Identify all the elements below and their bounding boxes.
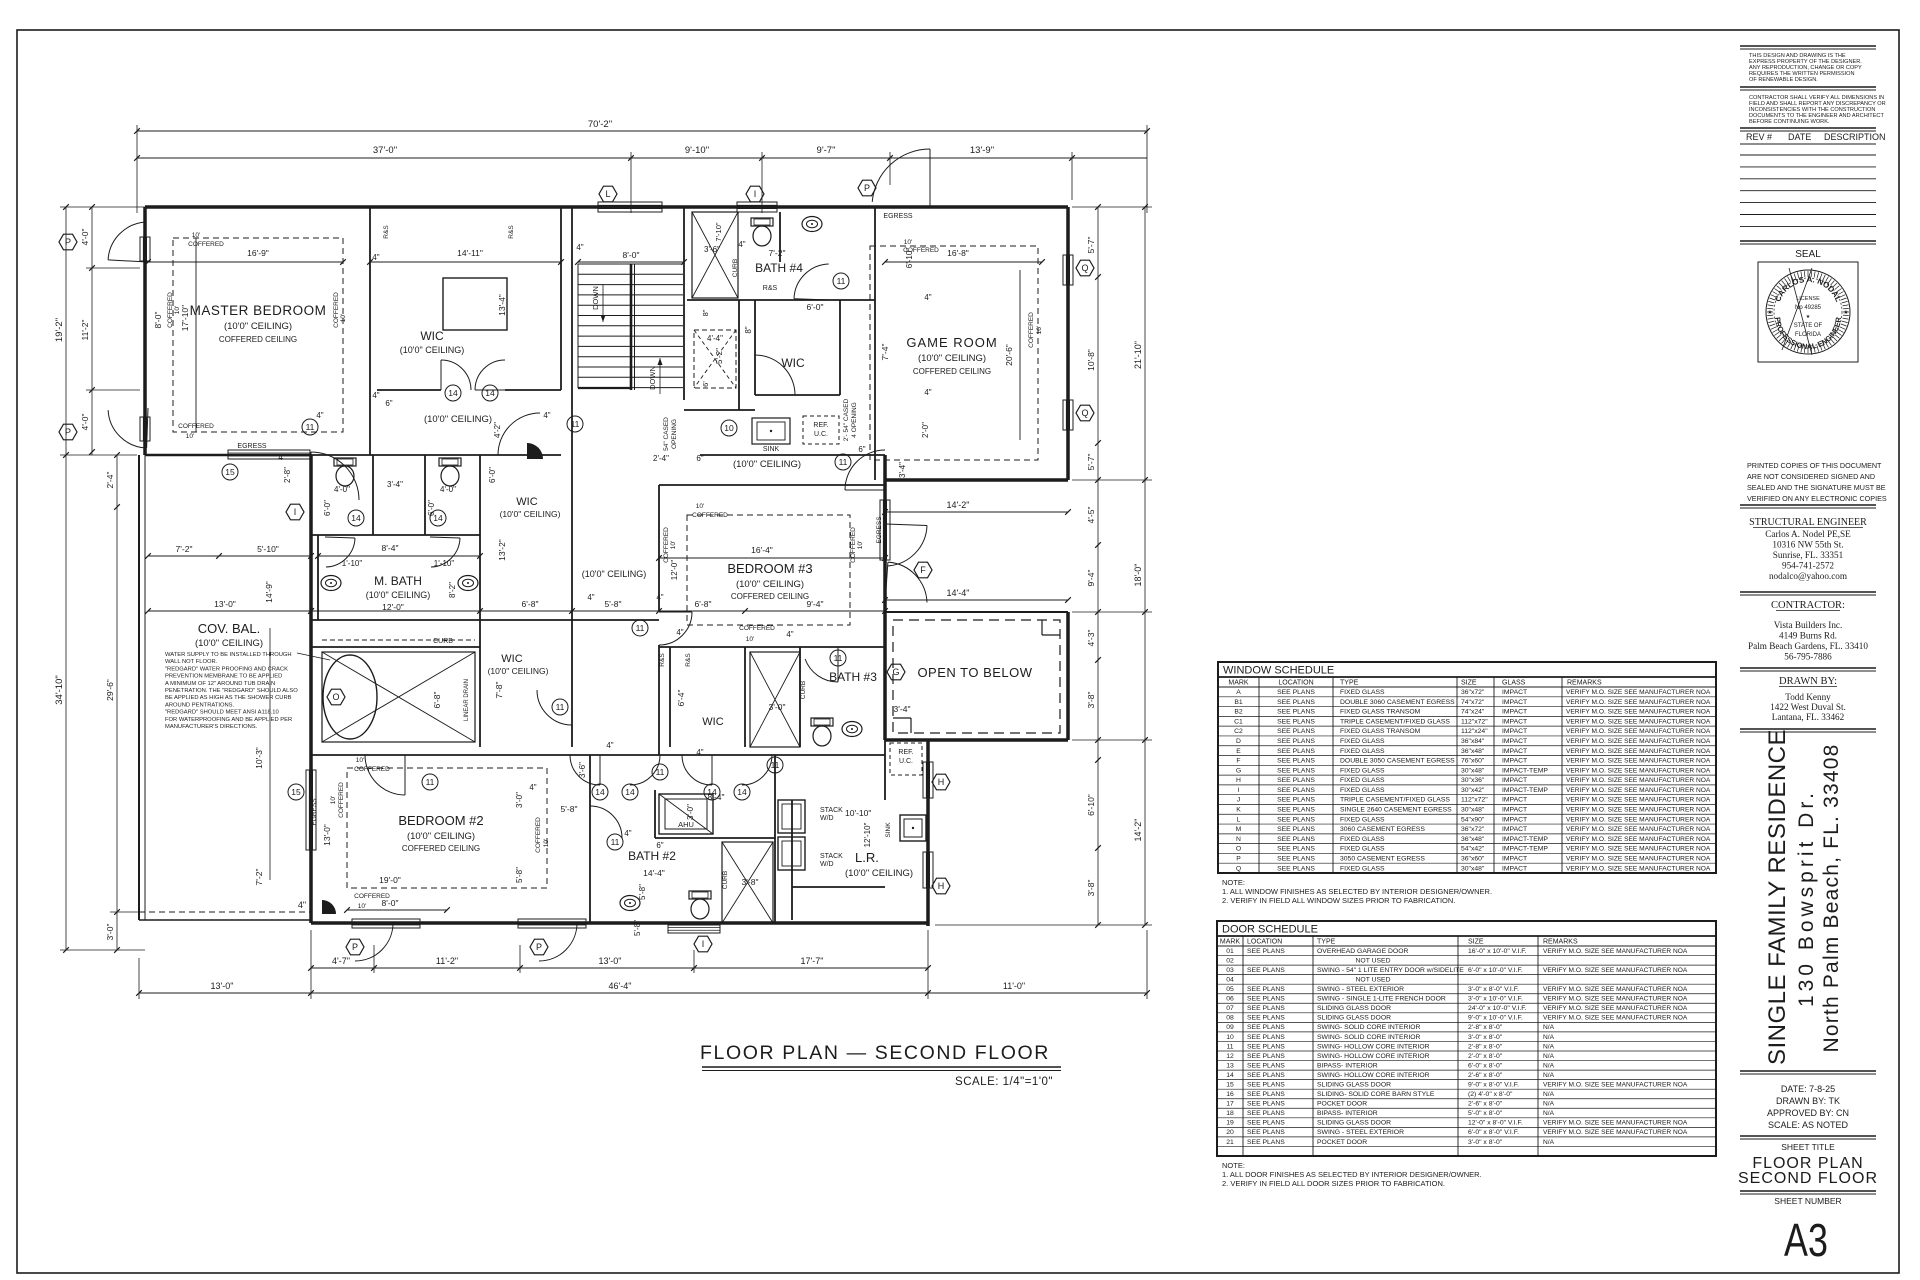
svg-text:76"x60": 76"x60" — [1461, 758, 1485, 765]
svg-text:8'-4": 8'-4" — [708, 792, 725, 802]
svg-text:30"x42": 30"x42" — [1461, 787, 1485, 794]
svg-text:130 Bowsprit Dr.: 130 Bowsprit Dr. — [1795, 789, 1818, 1007]
svg-text:M. BATH: M. BATH — [374, 574, 422, 588]
svg-text:O: O — [332, 692, 339, 702]
svg-text:3'-0": 3'-0" — [769, 702, 786, 712]
svg-text:11'-0": 11'-0" — [1003, 981, 1025, 991]
svg-text:SEE PLANS: SEE PLANS — [1247, 1129, 1285, 1136]
svg-text:FIXED GLASS: FIXED GLASS — [1340, 777, 1385, 784]
svg-text:FIXED GLASS: FIXED GLASS — [1340, 748, 1385, 755]
svg-text:6'-0": 6'-0" — [323, 500, 332, 516]
svg-text:10': 10' — [543, 839, 550, 847]
svg-text:3'-4": 3'-4" — [387, 480, 403, 489]
svg-text:6'-0" x 10'-0" V.I.F.: 6'-0" x 10'-0" V.I.F. — [1468, 967, 1523, 974]
svg-text:30"x36": 30"x36" — [1461, 777, 1485, 784]
svg-text:21: 21 — [1226, 1139, 1234, 1146]
svg-text:112"x72": 112"x72" — [1461, 797, 1488, 804]
svg-text:11: 11 — [636, 623, 645, 633]
svg-text:5'-8": 5'-8" — [515, 867, 524, 883]
svg-text:10': 10' — [192, 232, 200, 239]
svg-text:19: 19 — [1226, 1120, 1234, 1127]
svg-text:GAME ROOM: GAME ROOM — [906, 335, 997, 350]
svg-text:IMPACT-TEMP: IMPACT-TEMP — [1502, 836, 1548, 843]
elevator shaft — [694, 330, 736, 388]
svg-text:FIXED GLASS: FIXED GLASS — [1340, 738, 1385, 745]
svg-text:11: 11 — [1226, 1043, 1233, 1050]
svg-text:SEE PLANS: SEE PLANS — [1247, 1015, 1285, 1022]
svg-text:COFFERED CEILING: COFFERED CEILING — [913, 367, 991, 376]
svg-text:03: 03 — [1226, 967, 1234, 974]
svg-text:13'-0": 13'-0" — [214, 599, 236, 609]
svg-text:DRAWN BY: TK: DRAWN BY: TK — [1776, 1096, 1840, 1106]
svg-text:IMPACT: IMPACT — [1502, 758, 1527, 765]
svg-text:36"x72": 36"x72" — [1461, 689, 1485, 696]
svg-text:74"x24": 74"x24" — [1461, 709, 1485, 716]
svg-text:Lantana, FL. 33462: Lantana, FL. 33462 — [1772, 712, 1845, 722]
svg-text:20: 20 — [1226, 1129, 1234, 1136]
svg-text:4'-3": 4'-3" — [1086, 630, 1096, 647]
svg-text:SEE PLANS: SEE PLANS — [1277, 758, 1315, 765]
svg-text:SHEET NUMBER: SHEET NUMBER — [1774, 1196, 1841, 1206]
svg-text:10': 10' — [356, 757, 364, 764]
svg-text:2'- 54" CASED: 2'- 54" CASED — [843, 398, 850, 441]
svg-text:STACK: STACK — [820, 853, 843, 860]
svg-text:MARK: MARK — [1220, 939, 1241, 946]
svg-text:54"x42": 54"x42" — [1461, 846, 1485, 853]
svg-text:21'-10": 21'-10" — [1133, 341, 1143, 369]
svg-text:BIPASS- INTERIOR: BIPASS- INTERIOR — [1317, 1062, 1378, 1069]
svg-text:SIZE: SIZE — [1468, 939, 1484, 946]
svg-text:N/A: N/A — [1543, 1091, 1555, 1098]
svg-text:FIXED GLASS: FIXED GLASS — [1340, 846, 1385, 853]
svg-text:CURB: CURB — [732, 259, 739, 277]
svg-text:OPEN TO BELOW: OPEN TO BELOW — [917, 665, 1032, 680]
svg-text:COFFERED: COFFERED — [338, 782, 345, 818]
svg-text:SWING- HOLLOW CORE INTERIOR: SWING- HOLLOW CORE INTERIOR — [1317, 1043, 1430, 1050]
svg-text:34'-10": 34'-10" — [54, 675, 65, 704]
svg-text:4": 4" — [656, 593, 663, 602]
svg-text:VERIFY M.O. SIZE SEE MANUFACTU: VERIFY M.O. SIZE SEE MANUFACTURER NOA — [1566, 807, 1711, 814]
svg-text:8": 8" — [744, 326, 753, 333]
bedroom 2 — [347, 768, 547, 888]
svg-text:SWING - STEEL EXTERIOR: SWING - STEEL EXTERIOR — [1317, 986, 1404, 993]
svg-text:SEE PLANS: SEE PLANS — [1277, 807, 1315, 814]
svg-text:SEE PLANS: SEE PLANS — [1277, 787, 1315, 794]
svg-text:11: 11 — [571, 419, 580, 429]
svg-text:4": 4" — [738, 240, 745, 249]
svg-text:NOT USED: NOT USED — [1356, 977, 1391, 984]
svg-text:VERIFY M.O. SIZE SEE MANUFACTU: VERIFY M.O. SIZE SEE MANUFACTURER NOA — [1543, 986, 1688, 993]
svg-text:VERIFY M.O. SIZE SEE MANUFACTU: VERIFY M.O. SIZE SEE MANUFACTURER NOA — [1543, 1129, 1688, 1136]
svg-text:SECOND FLOOR: SECOND FLOOR — [1738, 1170, 1878, 1187]
svg-text:4": 4" — [786, 630, 793, 639]
svg-text:TRIPLE CASEMENT/FIXED GLASS: TRIPLE CASEMENT/FIXED GLASS — [1340, 718, 1450, 725]
svg-text:1'-10": 1'-10" — [434, 559, 455, 568]
svg-text:COFFERED: COFFERED — [333, 292, 340, 328]
svg-text:CURB: CURB — [433, 638, 453, 645]
svg-text:VERIFY M.O. SIZE SEE MANUFACTU: VERIFY M.O. SIZE SEE MANUFACTURER NOA — [1566, 718, 1711, 725]
svg-text:4 OPENING: 4 OPENING — [851, 402, 858, 437]
svg-text:SCALE: 1/4"=1'0": SCALE: 1/4"=1'0" — [955, 1076, 1053, 1088]
svg-text:74"x72": 74"x72" — [1461, 699, 1485, 706]
svg-text:7'-8": 7'-8" — [494, 682, 504, 699]
svg-text:SEE PLANS: SEE PLANS — [1247, 1110, 1285, 1117]
svg-text:9'-10": 9'-10" — [685, 145, 709, 156]
svg-text:15: 15 — [225, 467, 235, 477]
svg-text:R&S: R&S — [508, 225, 515, 239]
svg-text:13'-0": 13'-0" — [211, 981, 234, 991]
svg-text:(10'0" CEILING): (10'0" CEILING) — [733, 459, 801, 470]
svg-text:VERIFY M.O. SIZE SEE MANUFACTU: VERIFY M.O. SIZE SEE MANUFACTURER NOA — [1566, 728, 1711, 735]
svg-text:10': 10' — [340, 314, 347, 322]
svg-text:56-795-7886: 56-795-7886 — [1784, 652, 1832, 662]
svg-text:IMPACT: IMPACT — [1502, 728, 1527, 735]
svg-text:10'-8": 10'-8" — [1086, 349, 1096, 371]
top dimension lines — [137, 130, 1147, 132]
svg-text:4": 4" — [298, 900, 306, 910]
svg-text:CURB: CURB — [800, 681, 807, 699]
svg-text:5'-8": 5'-8" — [561, 804, 578, 814]
svg-text:WIC: WIC — [420, 329, 444, 343]
svg-text:3'-0" x 8'-0" V.I.F.: 3'-0" x 8'-0" V.I.F. — [1468, 986, 1519, 993]
svg-text:3'-6": 3'-6" — [578, 762, 587, 778]
svg-text:SEE PLANS: SEE PLANS — [1277, 718, 1315, 725]
svg-text:17'-10": 17'-10" — [180, 305, 190, 331]
svg-text:12: 12 — [1226, 1053, 1234, 1060]
svg-text:2'-8" x 8'-0": 2'-8" x 8'-0" — [1468, 1043, 1503, 1050]
svg-text:SEE PLANS: SEE PLANS — [1247, 1082, 1285, 1089]
svg-text:5'-8": 5'-8" — [605, 599, 622, 609]
svg-text:10': 10' — [186, 433, 194, 440]
svg-text:D: D — [1236, 738, 1241, 745]
svg-text:PENETRATION. THE "REDGARD": PENETRATION. THE "REDGARD" SHOULD ALSO — [165, 688, 298, 694]
svg-text:10'-10": 10'-10" — [845, 808, 871, 818]
svg-text:8'-4": 8'-4" — [382, 543, 399, 553]
svg-text:4'-0": 4'-0" — [80, 414, 90, 431]
svg-text:2. VERIFY IN FIELD ALL WINDOW: 2. VERIFY IN FIELD ALL WINDOW SIZES PRIO… — [1222, 896, 1455, 905]
svg-text:10'-3": 10'-3" — [254, 747, 264, 769]
svg-text:02: 02 — [1226, 957, 1234, 964]
svg-text:14: 14 — [1226, 1072, 1234, 1079]
svg-text:VERIFY M.O. SIZE SEE MANUFACTU: VERIFY M.O. SIZE SEE MANUFACTURER NOA — [1566, 709, 1711, 716]
svg-text:14: 14 — [485, 388, 495, 398]
svg-text:SWING- SOLID CORE INTERIOR: SWING- SOLID CORE INTERIOR — [1317, 1024, 1421, 1031]
svg-text:36"x48": 36"x48" — [1461, 836, 1485, 843]
svg-text:10': 10' — [174, 306, 181, 314]
svg-text:3'-4": 3'-4" — [898, 462, 907, 478]
svg-text:SINK: SINK — [885, 822, 892, 838]
svg-text:11: 11 — [426, 777, 435, 787]
svg-text:SEE PLANS: SEE PLANS — [1247, 1034, 1285, 1041]
window mark symbols — [599, 186, 617, 202]
svg-text:A MINIMUM OF 12" AROUND T: A MINIMUM OF 12" AROUND TUB DRAIN — [165, 681, 275, 687]
svg-text:16: 16 — [1226, 1091, 1234, 1098]
svg-text:19'-0": 19'-0" — [379, 875, 401, 885]
svg-text:2. VERIFY IN FIELD ALL DOOR SI: 2. VERIFY IN FIELD ALL DOOR SIZES PRIOR … — [1222, 1179, 1445, 1188]
svg-text:6'-0" x 8'-0": 6'-0" x 8'-0" — [1468, 1062, 1503, 1069]
svg-text:G: G — [1236, 767, 1241, 774]
svg-text:13'-0": 13'-0" — [322, 824, 332, 846]
svg-text:6'-0": 6'-0" — [488, 467, 497, 483]
svg-text:1. ALL DOOR FINISHES AS SELECT: 1. ALL DOOR FINISHES AS SELECTED BY INTE… — [1222, 1170, 1482, 1179]
svg-text:6'-0" x 8'-0" V.I.F.: 6'-0" x 8'-0" V.I.F. — [1468, 1129, 1519, 1136]
svg-text:IMPACT: IMPACT — [1502, 709, 1527, 716]
svg-text:15: 15 — [1226, 1082, 1234, 1089]
svg-text:N/A: N/A — [1543, 1139, 1555, 1146]
master shower — [322, 652, 475, 742]
svg-text:11'-2": 11'-2" — [436, 956, 458, 966]
svg-text:COFFERED: COFFERED — [663, 527, 670, 563]
svg-text:2'-6" x 8'-0": 2'-6" x 8'-0" — [1468, 1072, 1503, 1079]
svg-text:3'-6": 3'-6" — [704, 245, 720, 254]
svg-text:3'-8": 3'-8" — [742, 877, 759, 887]
svg-text:4": 4" — [676, 628, 683, 637]
svg-text:SWING - STEEL EXTERIOR: SWING - STEEL EXTERIOR — [1317, 1129, 1404, 1136]
svg-text:10316 NW 55th St.: 10316 NW 55th St. — [1772, 540, 1843, 550]
svg-text:Vista Builders Inc.: Vista Builders Inc. — [1774, 620, 1843, 630]
svg-text:4'-5": 4'-5" — [1086, 507, 1096, 524]
svg-text:FOR WATERPROOFING AND BE A: FOR WATERPROOFING AND BE APPLIED PER — [165, 717, 292, 723]
svg-text:IMPACT: IMPACT — [1502, 718, 1527, 725]
svg-text:G: G — [892, 667, 899, 677]
svg-text:FLOOR PLAN — SECOND FLOOR: FLOOR PLAN — SECOND FLOOR — [700, 1042, 1050, 1064]
svg-text:VERIFY M.O. SIZE SEE MANUFACTU: VERIFY M.O. SIZE SEE MANUFACTURER NOA — [1566, 738, 1711, 745]
svg-text:SLIDING GLASS DOOR: SLIDING GLASS DOOR — [1317, 1082, 1391, 1089]
svg-text:SLIDING- SOLID CORE BARN STYLE: SLIDING- SOLID CORE BARN STYLE — [1317, 1091, 1435, 1098]
svg-text:N/A: N/A — [1543, 1053, 1555, 1060]
svg-text:SEE PLANS: SEE PLANS — [1247, 996, 1285, 1003]
svg-text:FIXED GLASS: FIXED GLASS — [1340, 767, 1385, 774]
svg-text:nodalco@yahoo.com: nodalco@yahoo.com — [1769, 571, 1847, 581]
svg-text:COFFERED CEILING: COFFERED CEILING — [219, 335, 297, 344]
contractor verify note — [1740, 86, 1876, 88]
svg-text:5'-7": 5'-7" — [1086, 237, 1096, 254]
svg-text:VERIFY M.O. SIZE SEE MANUFACTU: VERIFY M.O. SIZE SEE MANUFACTURER NOA — [1566, 767, 1711, 774]
bath 2 + ahu — [659, 794, 713, 834]
door schedule — [1217, 921, 1716, 1156]
svg-text:10': 10' — [1036, 326, 1043, 334]
svg-text:WIC: WIC — [501, 653, 522, 665]
svg-text:SEE PLANS: SEE PLANS — [1277, 826, 1315, 833]
svg-text:11: 11 — [656, 767, 665, 777]
svg-text:3'-0": 3'-0" — [686, 804, 695, 820]
svg-text:I: I — [294, 507, 297, 517]
svg-text:COFFERED: COFFERED — [535, 817, 542, 853]
svg-text:SEE PLANS: SEE PLANS — [1247, 948, 1285, 955]
svg-text:I: I — [1238, 787, 1240, 794]
svg-text:AHU: AHU — [678, 820, 694, 829]
svg-text:(10'0" CEILING): (10'0" CEILING) — [407, 831, 475, 842]
svg-text:DATE: 7-8-25: DATE: 7-8-25 — [1781, 1084, 1835, 1094]
svg-text:14: 14 — [351, 513, 361, 523]
svg-text:13: 13 — [1226, 1062, 1234, 1069]
svg-text:5'-7": 5'-7" — [1086, 454, 1096, 471]
svg-text:FIXED GLASS: FIXED GLASS — [1340, 689, 1385, 696]
svg-text:NOTE:: NOTE: — [1222, 878, 1245, 887]
svg-text:12'-10": 12'-10" — [863, 822, 872, 847]
svg-text:★: ★ — [1767, 309, 1772, 316]
powder rooms — [334, 458, 356, 486]
svg-text:FIXED GLASS: FIXED GLASS — [1340, 816, 1385, 823]
svg-text:BIPASS- INTERIOR: BIPASS- INTERIOR — [1317, 1110, 1378, 1117]
svg-text:FIXED GLASS TRANSOM: FIXED GLASS TRANSOM — [1340, 709, 1421, 716]
svg-text:(10'0" CEILING): (10'0" CEILING) — [500, 509, 561, 519]
svg-text:4'-0": 4'-0" — [334, 485, 350, 494]
svg-text:WALL NOT FLOOR.: WALL NOT FLOOR. — [165, 659, 218, 665]
svg-text:BEDROOM #2: BEDROOM #2 — [398, 813, 483, 828]
svg-text:5'-8": 5'-8" — [638, 884, 647, 900]
svg-text:SEE PLANS: SEE PLANS — [1277, 855, 1315, 862]
svg-text:NOT USED: NOT USED — [1356, 957, 1391, 964]
svg-text:6": 6" — [656, 841, 663, 850]
svg-text:FIXED GLASS TRANSOM: FIXED GLASS TRANSOM — [1340, 728, 1421, 735]
svg-text:IMPACT: IMPACT — [1502, 855, 1527, 862]
svg-text:30"x48": 30"x48" — [1461, 767, 1485, 774]
svg-text:(10'0" CEILING): (10'0" CEILING) — [488, 666, 549, 676]
svg-text:SWING- HOLLOW CORE INTERIOR: SWING- HOLLOW CORE INTERIOR — [1317, 1053, 1430, 1060]
svg-text:SEE PLANS: SEE PLANS — [1247, 1120, 1285, 1127]
svg-text:K: K — [1236, 807, 1241, 814]
svg-text:SEE PLANS: SEE PLANS — [1277, 767, 1315, 774]
svg-text:SEE PLANS: SEE PLANS — [1247, 1005, 1285, 1012]
svg-text:R&S: R&S — [659, 653, 666, 667]
svg-text:5'-0" x 8'-0": 5'-0" x 8'-0" — [1468, 1110, 1503, 1117]
svg-text:GLASS: GLASS — [1502, 680, 1526, 687]
svg-text:PREVENTION MEMBRANE TO BE: PREVENTION MEMBRANE TO BE APPLIED — [165, 674, 282, 680]
svg-text:APPROVED BY: CN: APPROVED BY: CN — [1767, 1108, 1849, 1118]
svg-text:29'-6": 29'-6" — [105, 679, 115, 701]
svg-text:16'-9": 16'-9" — [247, 248, 269, 258]
svg-text:CURB: CURB — [722, 871, 729, 889]
bottom dimension lines — [311, 967, 928, 969]
svg-text:9'-7": 9'-7" — [817, 145, 836, 156]
svg-text:1'-10": 1'-10" — [342, 559, 363, 568]
svg-text:36"x72": 36"x72" — [1461, 826, 1485, 833]
svg-text:VERIFIED ON ANY ELECTRONIC: VERIFIED ON ANY ELECTRONIC COPIES — [1747, 494, 1887, 503]
svg-text:EGRESS: EGRESS — [237, 443, 267, 450]
svg-text:8'-2": 8'-2" — [448, 582, 457, 598]
svg-text:SEE PLANS: SEE PLANS — [1277, 699, 1315, 706]
svg-text:6': 6' — [701, 381, 710, 387]
svg-text:I: I — [754, 189, 757, 199]
svg-text:COFFERED: COFFERED — [188, 241, 224, 248]
svg-text:N: N — [1236, 836, 1241, 843]
svg-text:BATH #4: BATH #4 — [755, 261, 803, 275]
svg-text:DESCRIPTION: DESCRIPTION — [1824, 132, 1886, 142]
svg-text:N/A: N/A — [1543, 1034, 1555, 1041]
svg-text:36"x60": 36"x60" — [1461, 855, 1485, 862]
exterior doors — [872, 149, 930, 202]
svg-text:VERIFY M.O. SIZE SEE MANUFACTU: VERIFY M.O. SIZE SEE MANUFACTURER NOA — [1566, 689, 1711, 696]
svg-text:3'-0" x 8'-0": 3'-0" x 8'-0" — [1468, 1139, 1503, 1146]
svg-text:P: P — [1236, 855, 1241, 862]
svg-text:17'-7": 17'-7" — [801, 956, 824, 966]
svg-text:Q: Q — [1236, 865, 1241, 872]
svg-text:7'-4": 7'-4" — [880, 344, 890, 361]
svg-text:VERIFY M.O. SIZE SEE MANUFACTU: VERIFY M.O. SIZE SEE MANUFACTURER NOA — [1566, 758, 1711, 765]
svg-text:SEE PLANS: SEE PLANS — [1247, 1072, 1285, 1079]
svg-text:W/D: W/D — [820, 815, 834, 822]
svg-text:DATE: DATE — [1788, 132, 1811, 142]
svg-text:(10'0" CEILING): (10'0" CEILING) — [736, 579, 804, 590]
svg-text:VERIFY M.O. SIZE SEE MANUFACTU: VERIFY M.O. SIZE SEE MANUFACTURER NOA — [1566, 797, 1711, 804]
svg-text:(10'0" CEILING): (10'0" CEILING) — [224, 321, 292, 332]
svg-text:6'-4": 6'-4" — [676, 690, 686, 707]
svg-text:4": 4" — [529, 783, 536, 792]
svg-text:37'-0": 37'-0" — [373, 145, 397, 156]
svg-text:2'-8" x 8'-0": 2'-8" x 8'-0" — [1468, 1024, 1503, 1031]
svg-text:Sunrise, FL. 33351: Sunrise, FL. 33351 — [1773, 550, 1844, 560]
svg-text:6'-0": 6'-0" — [807, 302, 824, 312]
svg-text:14'-9": 14'-9" — [264, 581, 274, 603]
svg-text:IMPACT: IMPACT — [1502, 816, 1527, 823]
svg-text:VERIFY M.O. SIZE SEE MANUFACTU: VERIFY M.O. SIZE SEE MANUFACTURER NOA — [1543, 1120, 1688, 1127]
svg-text:CONTRACTOR:: CONTRACTOR: — [1771, 600, 1845, 611]
svg-text:REV #: REV # — [1746, 132, 1772, 142]
svg-text:SEE PLANS: SEE PLANS — [1247, 1091, 1285, 1098]
svg-text:4": 4" — [624, 829, 631, 838]
svg-text:14'-11": 14'-11" — [457, 248, 483, 258]
svg-text:12'-0": 12'-0" — [670, 560, 679, 581]
svg-text:SEE PLANS: SEE PLANS — [1247, 1043, 1285, 1050]
svg-text:54" CASED: 54" CASED — [663, 417, 670, 451]
svg-text:IMPACT-TEMP: IMPACT-TEMP — [1502, 846, 1548, 853]
svg-text:VERIFY M.O. SIZE SEE MANUFACTU: VERIFY M.O. SIZE SEE MANUFACTURER NOA — [1543, 1005, 1688, 1012]
svg-text:2'-0": 2'-0" — [921, 422, 930, 438]
svg-text:TYPE: TYPE — [1317, 939, 1336, 946]
svg-text:NOTE:: NOTE: — [1222, 1161, 1245, 1170]
svg-text:SEE PLANS: SEE PLANS — [1247, 1024, 1285, 1031]
svg-text:1. ALL WINDOW FINISHES AS SELE: 1. ALL WINDOW FINISHES AS SELECTED BY IN… — [1222, 887, 1492, 896]
svg-text:14: 14 — [737, 787, 747, 797]
svg-text:BE APPLIED AS HIGH AS THE: BE APPLIED AS HIGH AS THE SHOWER CURB — [165, 695, 292, 701]
svg-text:VERIFY M.O. SIZE SEE MANUFACTU: VERIFY M.O. SIZE SEE MANUFACTURER NOA — [1543, 948, 1688, 955]
svg-text:7'-10": 7'-10" — [714, 222, 723, 241]
svg-text:SEALED AND THE SIGNATURE M: SEALED AND THE SIGNATURE MUST BE — [1747, 483, 1886, 492]
svg-text:VERIFY M.O. SIZE SEE MANUFACTU: VERIFY M.O. SIZE SEE MANUFACTURER NOA — [1566, 787, 1711, 794]
svg-text:FLORIDA: FLORIDA — [1795, 332, 1821, 338]
svg-text:L: L — [605, 189, 610, 199]
svg-text:SWING- HOLLOW CORE INTERIOR: SWING- HOLLOW CORE INTERIOR — [1317, 1072, 1430, 1079]
svg-text:5'-10": 5'-10" — [257, 544, 279, 554]
svg-text:20'-6": 20'-6" — [1004, 344, 1014, 366]
svg-text:DRAWN BY:: DRAWN BY: — [1779, 676, 1837, 687]
svg-text:4": 4" — [372, 253, 379, 262]
svg-text:16'-4": 16'-4" — [751, 545, 773, 555]
svg-text:COFFERED: COFFERED — [167, 292, 174, 328]
svg-text:Carlos A. Nodel PE,SE: Carlos A. Nodel PE,SE — [1765, 529, 1851, 539]
svg-text:A3: A3 — [1784, 1215, 1828, 1266]
svg-text:VERIFY M.O. SIZE SEE MANUFACTU: VERIFY M.O. SIZE SEE MANUFACTURER NOA — [1566, 836, 1711, 843]
svg-text:4": 4" — [606, 741, 613, 750]
svg-text:WATER SUPPLY TO BE INSTALL: WATER SUPPLY TO BE INSTALLED THROUGH — [165, 652, 292, 658]
svg-text:10': 10' — [358, 903, 366, 910]
svg-text:30"x48": 30"x48" — [1461, 807, 1485, 814]
svg-text:9'-4": 9'-4" — [1086, 570, 1096, 587]
svg-text:VERIFY M.O. SIZE SEE MANUFACTU: VERIFY M.O. SIZE SEE MANUFACTURER NOA — [1566, 699, 1711, 706]
svg-text:IMPACT: IMPACT — [1502, 738, 1527, 745]
svg-text:36"x84": 36"x84" — [1461, 738, 1485, 745]
svg-text:SINGLE FAMILY RESIDENCE: SINGLE FAMILY RESIDENCE — [1764, 729, 1791, 1065]
svg-text:10': 10' — [904, 239, 912, 246]
bath #4 — [692, 212, 738, 298]
svg-text:4": 4" — [372, 391, 379, 400]
svg-text:AROUND PENTRATIONS.: AROUND PENTRATIONS. — [165, 702, 235, 708]
svg-text:Q: Q — [1081, 263, 1088, 273]
svg-text:(10'0" CEILING): (10'0" CEILING) — [845, 868, 913, 879]
svg-text:112"x24": 112"x24" — [1461, 728, 1488, 735]
svg-text:4149 Burns Rd.: 4149 Burns Rd. — [1779, 631, 1837, 641]
